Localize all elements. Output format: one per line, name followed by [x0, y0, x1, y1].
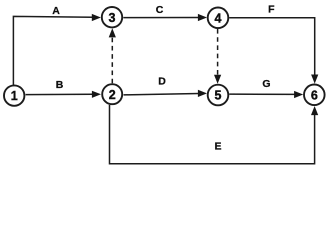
- node 2: [102, 84, 122, 104]
- arrowhead into node 5 left (activity D): [198, 90, 207, 97]
- arrowhead into node 6 left (activity G): [294, 91, 303, 98]
- wire: activity C from node 3 to node 4: [123, 17, 199, 19]
- wire: activity D from node 2 to node 5: [124, 94, 200, 95]
- svg-text:6: 6: [311, 88, 318, 102]
- svg-text:C: C: [156, 4, 164, 16]
- svg-text:4: 4: [215, 11, 222, 25]
- svg-text:2: 2: [109, 88, 116, 102]
- svg-text:3: 3: [109, 11, 116, 25]
- svg-text:D: D: [158, 75, 166, 87]
- arrowhead into node 3 bottom (dummy 2-3): [109, 28, 116, 37]
- svg-text:B: B: [56, 79, 64, 91]
- svg-text:F: F: [268, 4, 275, 16]
- wire: activity F from node 4 right then down to node 6: [229, 18, 315, 76]
- arrowhead into node 3 left (activity A): [92, 14, 101, 21]
- arrowhead into node 2 left (activity B): [92, 91, 101, 98]
- wire: activity G from node 5 to node 6: [229, 93, 295, 95]
- arrowhead into node 6 bottom (activity E): [311, 106, 318, 115]
- arrowhead into node 5 top (dummy 4-5): [214, 75, 221, 84]
- wire: activity B from node 1 to node 2: [26, 93, 94, 95]
- svg-text:G: G: [262, 78, 270, 90]
- svg-text:E: E: [214, 141, 221, 153]
- node 1: [4, 85, 24, 105]
- arrowhead into node 6 top (activity F): [311, 75, 318, 84]
- node 3: [102, 7, 122, 27]
- wire: activity A path from node 1 up and right toward node 3: [13, 16, 93, 85]
- node 6: [304, 85, 325, 106]
- arrowhead into node 4 left (activity C): [198, 14, 207, 21]
- svg-text:1: 1: [11, 89, 18, 103]
- svg-text:5: 5: [215, 89, 222, 103]
- node 4: [208, 7, 229, 28]
- node 5: [208, 85, 229, 106]
- svg-text:A: A: [52, 5, 60, 17]
- wire: dashed dummy activity from node 2 up to node 3: [111, 37, 113, 84]
- wire: dashed dummy activity from node 4 down to node 5: [217, 29, 219, 76]
- wire: activity E from node 2 down, right, and up into node 6: [110, 105, 315, 164]
